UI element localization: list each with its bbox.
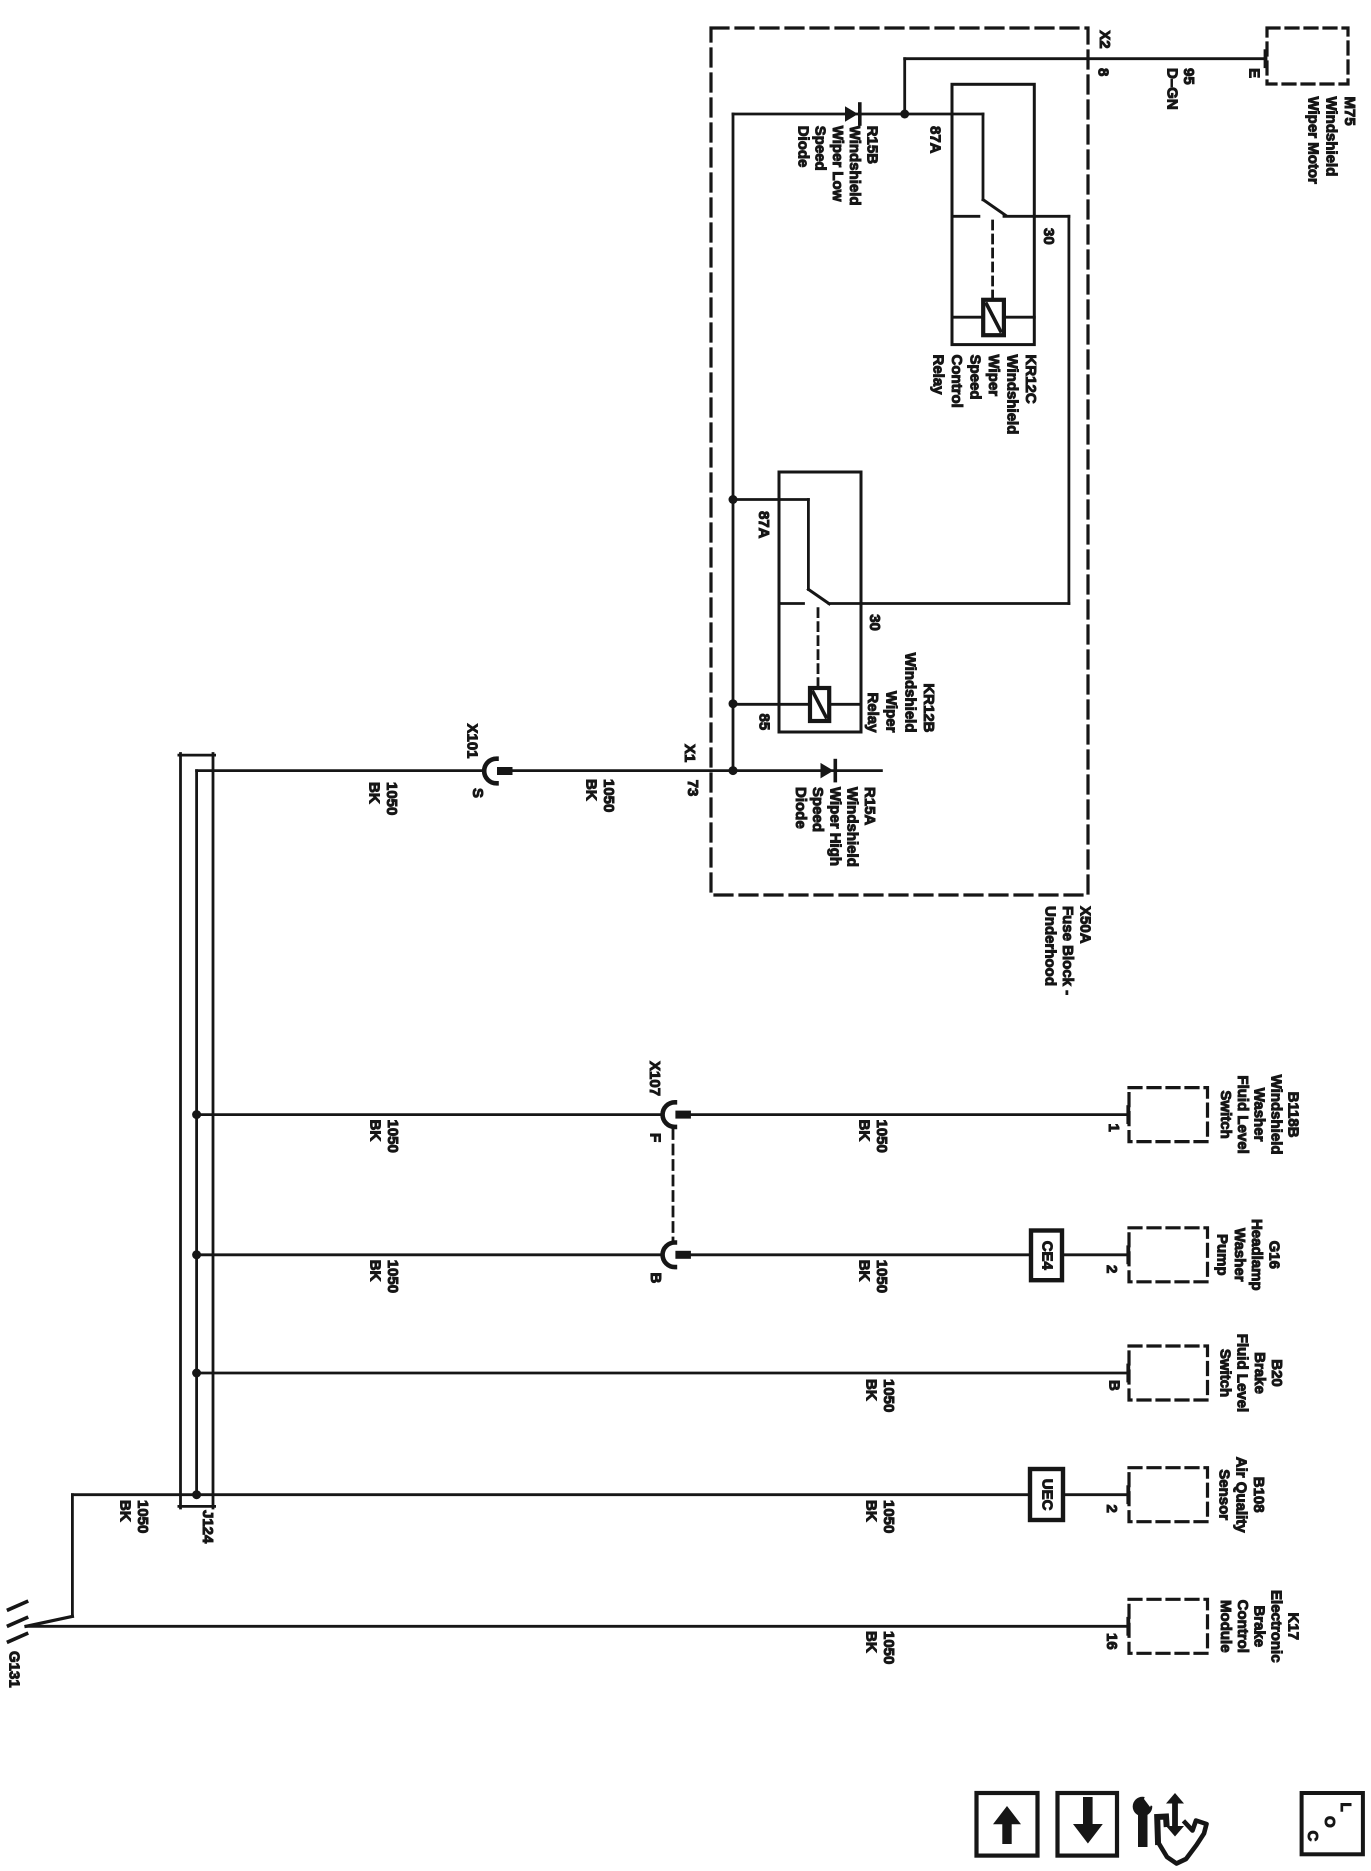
svg-text:95: 95 xyxy=(1180,68,1197,85)
svg-text:Speed: Speed xyxy=(967,355,984,400)
svg-text:2: 2 xyxy=(1103,1505,1120,1513)
svg-text:G16: G16 xyxy=(1266,1241,1283,1269)
svg-text:30: 30 xyxy=(1040,228,1057,245)
svg-text:B: B xyxy=(647,1273,664,1284)
svg-text:Wiper: Wiper xyxy=(985,355,1002,397)
svg-text:X107: X107 xyxy=(646,1061,663,1096)
svg-text:1: 1 xyxy=(1105,1124,1122,1132)
svg-text:Fluid Level: Fluid Level xyxy=(1234,1334,1251,1412)
svg-text:J124: J124 xyxy=(199,1510,216,1544)
svg-text:Switch: Switch xyxy=(1216,1349,1233,1397)
svg-text:8: 8 xyxy=(1095,68,1112,76)
svg-text:Diode: Diode xyxy=(794,126,811,168)
svg-text:Relay: Relay xyxy=(864,692,881,733)
svg-text:KR12C: KR12C xyxy=(1022,355,1039,404)
svg-text:S: S xyxy=(469,788,486,798)
svg-text:Windshield: Windshield xyxy=(1004,355,1021,435)
svg-text:73: 73 xyxy=(684,780,701,797)
svg-text:B20: B20 xyxy=(1268,1359,1285,1387)
svg-text:Windshield: Windshield xyxy=(1268,1075,1285,1155)
svg-text:CE4: CE4 xyxy=(1039,1241,1056,1271)
svg-text:B108: B108 xyxy=(1250,1477,1267,1513)
svg-text:16: 16 xyxy=(1103,1633,1120,1650)
svg-text:Headlamp: Headlamp xyxy=(1248,1219,1265,1291)
svg-text:BK: BK xyxy=(367,1120,384,1142)
svg-text:30: 30 xyxy=(866,614,883,631)
svg-text:1050: 1050 xyxy=(600,779,617,812)
svg-text:1050: 1050 xyxy=(873,1260,890,1293)
svg-text:Electronic: Electronic xyxy=(1268,1590,1285,1663)
svg-text:BK: BK xyxy=(583,779,600,801)
svg-text:UEC: UEC xyxy=(1039,1479,1056,1511)
svg-text:1050: 1050 xyxy=(384,1260,401,1293)
svg-text:L: L xyxy=(1337,1803,1354,1812)
svg-text:C: C xyxy=(1304,1831,1321,1842)
svg-text:Windshield: Windshield xyxy=(846,126,863,206)
svg-text:Fuse Block -: Fuse Block - xyxy=(1059,906,1076,995)
svg-text:1050: 1050 xyxy=(880,1379,897,1412)
svg-text:K17: K17 xyxy=(1285,1613,1302,1641)
svg-text:BK: BK xyxy=(856,1260,873,1282)
svg-text:M75: M75 xyxy=(1341,97,1358,126)
svg-text:Wiper Motor: Wiper Motor xyxy=(1304,97,1321,185)
svg-text:Underhood: Underhood xyxy=(1042,906,1059,986)
svg-text:1050: 1050 xyxy=(384,1120,401,1153)
svg-text:BK: BK xyxy=(366,782,383,804)
svg-text:BK: BK xyxy=(367,1260,384,1282)
svg-text:Speed: Speed xyxy=(809,787,826,832)
svg-text:Washer: Washer xyxy=(1231,1228,1248,1282)
svg-text:BK: BK xyxy=(856,1120,873,1142)
svg-text:Wiper: Wiper xyxy=(883,691,900,733)
svg-text:Windshield: Windshield xyxy=(1323,97,1340,177)
svg-text:87A: 87A xyxy=(755,511,772,539)
svg-text:1050: 1050 xyxy=(134,1500,151,1533)
svg-text:Speed: Speed xyxy=(812,126,829,171)
svg-text:R15A: R15A xyxy=(861,787,878,826)
svg-text:Sensor: Sensor xyxy=(1215,1469,1232,1520)
svg-text:Wiper Low: Wiper Low xyxy=(829,126,846,202)
svg-text:B: B xyxy=(1106,1380,1123,1391)
svg-text:X2: X2 xyxy=(1096,30,1113,48)
svg-text:1050: 1050 xyxy=(880,1631,897,1664)
svg-text:2: 2 xyxy=(1103,1265,1120,1273)
svg-text:Control: Control xyxy=(1234,1600,1251,1653)
svg-text:BK: BK xyxy=(117,1500,134,1522)
svg-text:Air Quality: Air Quality xyxy=(1233,1457,1250,1534)
svg-text:Fluid Level: Fluid Level xyxy=(1234,1075,1251,1153)
svg-text:KR12B: KR12B xyxy=(920,683,937,732)
svg-text:87A: 87A xyxy=(927,126,944,154)
svg-text:G131: G131 xyxy=(6,1651,23,1688)
svg-text:F: F xyxy=(647,1133,664,1142)
svg-text:1050: 1050 xyxy=(383,782,400,815)
svg-text:1050: 1050 xyxy=(880,1500,897,1533)
svg-text:Switch: Switch xyxy=(1217,1090,1234,1138)
svg-text:Pump: Pump xyxy=(1214,1234,1231,1276)
svg-text:1050: 1050 xyxy=(873,1120,890,1153)
svg-text:Control: Control xyxy=(948,355,965,408)
svg-text:O: O xyxy=(1321,1816,1338,1828)
svg-text:BK: BK xyxy=(863,1631,880,1653)
svg-text:Windshield: Windshield xyxy=(844,787,861,867)
svg-text:E: E xyxy=(1245,68,1262,78)
svg-text:Brake: Brake xyxy=(1251,1605,1268,1647)
svg-text:Brake: Brake xyxy=(1251,1352,1268,1394)
svg-text:Relay: Relay xyxy=(930,355,947,396)
svg-text:85: 85 xyxy=(756,714,773,731)
svg-text:Windshield: Windshield xyxy=(901,653,918,733)
svg-text:D–GN: D–GN xyxy=(1164,68,1181,110)
svg-text:Wiper High: Wiper High xyxy=(826,787,843,866)
svg-text:X50A: X50A xyxy=(1077,906,1094,944)
svg-text:R15B: R15B xyxy=(864,126,881,165)
svg-text:X1: X1 xyxy=(681,744,698,762)
svg-text:B118B: B118B xyxy=(1285,1092,1302,1138)
svg-text:Module: Module xyxy=(1217,1600,1234,1653)
svg-text:Diode: Diode xyxy=(792,787,809,829)
svg-text:BK: BK xyxy=(863,1500,880,1522)
svg-text:X101: X101 xyxy=(464,724,481,759)
svg-text:BK: BK xyxy=(863,1379,880,1401)
svg-text:Washer: Washer xyxy=(1251,1088,1268,1142)
